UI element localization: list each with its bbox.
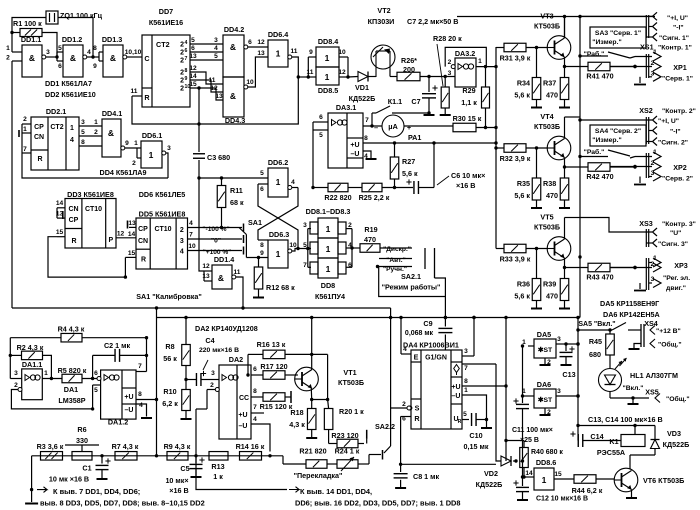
svg-text:R43 470: R43 470 (586, 273, 613, 282)
wire - VT4 collector to rail (565, 116, 581, 118)
resistor R44 (574, 475, 596, 484)
svg-text:2: 2 (180, 42, 184, 49)
svg-text:5: 5 (303, 242, 307, 249)
wire (513, 460, 516, 462)
svg-text:DD1.4: DD1.4 (214, 255, 234, 264)
svg-text:15: 15 (128, 250, 136, 257)
resistor R18 (311, 400, 313, 409)
svg-text:КД522Б: КД522Б (349, 94, 376, 103)
svg-text:1: 1 (325, 53, 330, 63)
svg-text:1: 1 (276, 249, 281, 259)
counter DD7 (142, 35, 190, 107)
svg-text:1: 1 (325, 72, 330, 82)
svg-text:4: 4 (189, 220, 193, 227)
svg-text:15: 15 (189, 81, 197, 88)
svg-text:SA4 "Серв. 2": SA4 "Серв. 2" (595, 128, 641, 135)
svg-text:+U: +U (238, 412, 247, 419)
resistor R13 (209, 452, 228, 461)
svg-text:выв. 8 DD3, DD5, DD7, DD8; выв: выв. 8 DD3, DD5, DD7, DD8; выв. 8–10,15 … (40, 499, 205, 508)
wire - pin2 S (407, 406, 411, 410)
svg-text:CT10: CT10 (154, 226, 171, 233)
svg-text:470: 470 (364, 235, 376, 244)
wire (346, 228, 352, 230)
svg-text:5,6 к: 5,6 к (514, 292, 530, 301)
svg-text:11: 11 (291, 48, 298, 55)
wire - DA2 -U pin4 (251, 424, 270, 452)
svg-text:CT2: CT2 (156, 40, 170, 49)
svg-text:6: 6 (248, 39, 252, 46)
svg-text:К561ПУ4: К561ПУ4 (315, 292, 345, 301)
op-amp DA3.1 (328, 113, 363, 168)
svg-text:R27: R27 (402, 157, 415, 166)
wire (298, 76, 308, 78)
resistor R38 (564, 167, 566, 178)
svg-text:DD6; выв. 16 DD2, DD3, DD5, DD: DD6; выв. 16 DD2, DD3, DD5, DD7; выв. 1 … (295, 499, 461, 508)
svg-text:14: 14 (525, 470, 533, 477)
wire - DA2 CC pin8 (251, 396, 263, 398)
svg-text:1: 1 (134, 140, 138, 147)
svg-text:1: 1 (276, 49, 281, 59)
wire (43, 355, 52, 378)
buffer DD8 stack (318, 218, 338, 238)
svg-text:5,6 к: 5,6 к (514, 191, 530, 200)
svg-text:+U: +U (451, 384, 460, 391)
wire - collector (564, 17, 566, 39)
gate DD1.4 (212, 265, 232, 289)
wire - +12 rail down (577, 318, 579, 441)
svg-text:2: 2 (180, 58, 184, 65)
wire (190, 43, 223, 45)
op-amp DA3.2 (445, 47, 486, 66)
svg-text:5: 5 (260, 170, 264, 177)
svg-text:"Общ.": "Общ." (658, 341, 682, 349)
svg-text:XS1: XS1 (640, 43, 654, 52)
relay K1 (621, 435, 645, 447)
svg-text:DD8.1–DD8.3: DD8.1–DD8.3 (306, 207, 351, 216)
svg-text:ZQ1 100 кГц: ZQ1 100 кГц (60, 11, 103, 20)
svg-text:С6 10 мк×: С6 10 мк× (451, 171, 485, 180)
resistor R34 (532, 78, 541, 100)
svg-text:DD1.2: DD1.2 (62, 35, 82, 44)
resistor R45 (606, 334, 615, 355)
wire (308, 266, 311, 268)
svg-text:DA3.2: DA3.2 (455, 49, 475, 58)
resistor R27 (394, 143, 396, 157)
svg-text:С8 1 мк: С8 1 мк (413, 472, 439, 481)
svg-text:R32 3,9 к: R32 3,9 к (500, 154, 531, 163)
svg-text:"Раб.": "Раб." (584, 148, 605, 156)
svg-text:470: 470 (546, 91, 558, 100)
wire (21, 124, 23, 153)
svg-text:7: 7 (23, 146, 27, 153)
svg-text:DD3 К561ИЕ8: DD3 К561ИЕ8 (67, 190, 114, 199)
svg-text:R14 16 к: R14 16 к (236, 442, 265, 451)
svg-text:КД522Б: КД522Б (663, 440, 690, 449)
svg-text:10: 10 (338, 49, 346, 56)
wire (12, 32, 20, 34)
svg-text:R: R (71, 238, 76, 245)
svg-text:ХР2: ХР2 (673, 163, 687, 172)
svg-text:3: 3 (81, 119, 85, 126)
svg-text:DD6.3: DD6.3 (269, 230, 289, 239)
svg-text:1: 1 (149, 150, 154, 160)
svg-text:&: & (110, 53, 116, 63)
svg-text:3: 3 (651, 71, 655, 78)
wire - supply link vertical (156, 308, 158, 456)
wire - DA5/DA6 input tie (522, 346, 524, 403)
svg-text:XS4: XS4 (644, 319, 658, 328)
svg-text:1: 1 (70, 125, 74, 132)
wire - DA1.2 pin8 (136, 399, 157, 401)
svg-text:1: 1 (94, 119, 98, 126)
svg-text:6: 6 (191, 45, 195, 52)
connector XP3 (645, 258, 647, 290)
svg-text:C3 680: C3 680 (207, 153, 230, 162)
svg-text:5: 5 (319, 132, 323, 139)
svg-text:R: R (414, 414, 420, 423)
svg-text:R4 4,3 к: R4 4,3 к (58, 325, 85, 334)
svg-text:220 мк×16 В: 220 мк×16 В (199, 347, 239, 354)
switch SA1 (243, 224, 245, 232)
svg-text:1: 1 (653, 49, 657, 56)
svg-text:"U": "U" (670, 230, 681, 237)
svg-text:12: 12 (189, 65, 197, 72)
svg-text:2: 2 (210, 382, 214, 389)
svg-text:2: 2 (180, 78, 184, 85)
svg-text:3: 3 (303, 222, 307, 229)
svg-text:R13: R13 (211, 462, 224, 471)
svg-text:12: 12 (117, 231, 125, 238)
svg-text:"Рег. эл.: "Рег. эл. (663, 275, 690, 282)
svg-text:5: 5 (191, 37, 195, 44)
svg-text:DD4.1: DD4.1 (102, 109, 122, 118)
svg-text:56 к: 56 к (163, 354, 177, 363)
svg-text:C7 2,2 мк×50 В: C7 2,2 мк×50 В (407, 17, 458, 26)
svg-text:SA3 "Серв. 1": SA3 "Серв. 1" (595, 30, 641, 37)
svg-text:DA5 КР1158ЕН9Г: DA5 КР1158ЕН9Г (600, 299, 659, 308)
wire - base divider (536, 148, 538, 178)
svg-text:&: & (29, 53, 35, 63)
svg-text:R: R (458, 419, 462, 425)
wire - pin7 (462, 363, 496, 365)
svg-text:×16 В: ×16 В (169, 486, 188, 495)
counter DD2.1 (31, 117, 79, 170)
svg-text:CP: CP (34, 124, 44, 131)
svg-text:–U: –U (351, 151, 360, 158)
svg-text:VT6 КТ503Б: VT6 КТ503Б (643, 476, 684, 485)
svg-text:VT1: VT1 (343, 368, 356, 377)
svg-text:"+I, U": "+I, U" (667, 15, 688, 22)
svg-text:SA1: SA1 (248, 218, 262, 227)
svg-text:11: 11 (307, 69, 314, 76)
svg-text:КТ503Б: КТ503Б (534, 122, 560, 131)
svg-text:15: 15 (56, 229, 64, 236)
svg-text:6: 6 (94, 370, 98, 377)
svg-text:4: 4 (403, 346, 407, 353)
svg-text:+: + (407, 123, 412, 132)
wire - pin2 bias rail (11, 390, 92, 409)
counter DD5 (136, 218, 188, 269)
svg-text:"-100 %": "-100 %" (202, 226, 229, 233)
svg-text:C: C (144, 54, 149, 63)
gate DD1.1 (22, 45, 42, 77)
svg-text:1: 1 (653, 149, 657, 156)
svg-text:200: 200 (403, 65, 415, 74)
svg-text:"Авт.": "Авт." (386, 257, 405, 264)
capacitor C5 (195, 456, 197, 463)
svg-text:5: 5 (81, 129, 85, 136)
gate DD4.2 (223, 35, 244, 77)
transistor VT4 (547, 136, 571, 160)
svg-text:R42 470: R42 470 (586, 172, 613, 181)
svg-text:R16 13 к: R16 13 к (257, 340, 286, 349)
wire (206, 390, 208, 410)
svg-text:C9: C9 (423, 319, 432, 328)
connector XP1 (645, 54, 647, 78)
wire (368, 76, 376, 78)
svg-text:C13, C14 100 мк×16 В: C13, C14 100 мк×16 В (588, 415, 663, 424)
svg-text:SA2.1: SA2.1 (401, 272, 421, 281)
svg-text:680: 680 (589, 350, 601, 359)
svg-text:DD6.4: DD6.4 (268, 30, 288, 39)
svg-text:+U: +U (350, 142, 359, 149)
svg-text:"Контр. 2": "Контр. 2" (662, 108, 696, 115)
svg-text:3: 3 (214, 37, 218, 44)
svg-text:4: 4 (185, 40, 188, 46)
svg-text:×16 В: ×16 В (456, 181, 475, 190)
svg-text:"Измер.": "Измер." (592, 137, 621, 144)
svg-text:"Сигн. 2": "Сигн. 2" (658, 140, 688, 147)
resistor R31 (496, 47, 504, 49)
svg-text:R39: R39 (543, 280, 556, 289)
svg-text:4: 4 (180, 249, 184, 256)
svg-text:1: 1 (276, 177, 281, 187)
svg-text:2: 2 (180, 227, 184, 234)
svg-text:470: 470 (546, 292, 558, 301)
wire (196, 451, 287, 490)
wire - emitter (564, 158, 566, 168)
wire - VT1 collector (311, 318, 313, 370)
resistor R37 (564, 67, 566, 78)
svg-text:R30 15 к: R30 15 к (453, 114, 482, 123)
wire (79, 125, 102, 127)
svg-text:4,3 к: 4,3 к (289, 420, 305, 429)
wire - DD3 P out (116, 237, 136, 239)
svg-text:R20 1 к: R20 1 к (339, 407, 364, 416)
svg-text:R25 2,2 к: R25 2,2 к (359, 193, 390, 202)
svg-text:R23 120: R23 120 (331, 431, 358, 440)
gate DD6.2 (268, 168, 288, 197)
gate DD6.1 (141, 141, 162, 168)
resistor R33 (496, 248, 504, 250)
svg-text:6: 6 (58, 63, 62, 70)
svg-text:R12 68 к: R12 68 к (266, 283, 295, 292)
svg-text:7: 7 (138, 363, 142, 370)
switch SA3 (590, 27, 646, 48)
capacitor C8 (400, 464, 402, 472)
wire - VT1 emitter node (310, 389, 312, 400)
capacitor C11 (516, 403, 529, 405)
svg-text:2: 2 (651, 261, 655, 268)
svg-text:3: 3 (46, 49, 50, 56)
wire (308, 228, 311, 230)
svg-text:2: 2 (651, 160, 655, 167)
svg-text:R22 820: R22 820 (324, 193, 351, 202)
svg-text:DA6 КР142ЕН5А: DA6 КР142ЕН5А (603, 310, 660, 319)
svg-text:"Серв. 1": "Серв. 1" (662, 76, 693, 83)
resistor R10 (182, 390, 191, 411)
svg-text:"+I, U": "+I, U" (658, 118, 679, 125)
svg-text:R1 100 к: R1 100 к (13, 19, 42, 28)
svg-text:DD8.6: DD8.6 (536, 458, 556, 467)
svg-text:R29: R29 (462, 86, 475, 95)
svg-text:13: 13 (215, 93, 223, 100)
svg-text:C5: C5 (180, 464, 189, 473)
svg-text:"-I": "-I" (673, 25, 684, 32)
svg-text:8: 8 (260, 242, 264, 249)
gate DD1.2 (63, 45, 83, 77)
svg-text:C1: C1 (82, 464, 91, 473)
svg-text:G1/GN: G1/GN (425, 355, 447, 362)
svg-text:4: 4 (214, 45, 218, 52)
svg-text:2: 2 (448, 59, 452, 66)
svg-text:8: 8 (93, 45, 97, 52)
svg-text:DD4 К561ЛА9: DD4 К561ЛА9 (100, 168, 147, 177)
svg-text:10 мк ×16 В: 10 мк ×16 В (49, 475, 89, 484)
relay contact K1.1 (371, 113, 373, 126)
svg-text:HL1 АЛ307ГМ: HL1 АЛ307ГМ (630, 371, 678, 380)
gate DD6.3 (268, 240, 288, 268)
wire (11, 61, 13, 308)
svg-text:R10: R10 (163, 387, 176, 396)
svg-text:CN: CN (138, 238, 148, 245)
svg-text:SA2.2: SA2.2 (375, 422, 395, 431)
svg-text:1 к: 1 к (213, 472, 223, 481)
svg-text:µА: µА (388, 122, 398, 131)
wire (346, 266, 352, 268)
svg-text:3: 3 (557, 388, 561, 395)
svg-text:6,2 к: 6,2 к (162, 399, 178, 408)
wire - DA2 out (251, 374, 263, 376)
wire - base divider (536, 249, 538, 279)
wire (190, 80, 223, 92)
meter PA1 (382, 115, 404, 137)
svg-text:R31 3,9 к: R31 3,9 к (500, 54, 531, 63)
svg-text:VD2: VD2 (484, 469, 498, 478)
svg-text:3: 3 (211, 370, 215, 377)
wire - SA3 pole (580, 55, 608, 57)
resistor R11 (220, 176, 223, 179)
svg-text:DD1.3: DD1.3 (102, 35, 122, 44)
wire - emitter (564, 258, 566, 268)
svg-text:CN: CN (68, 206, 78, 213)
svg-text:"Измер.": "Измер." (592, 39, 621, 46)
svg-text:1: 1 (326, 264, 331, 274)
switch SA5 (576, 316, 579, 319)
svg-text:R41 470: R41 470 (586, 72, 613, 81)
svg-text:&: & (230, 91, 236, 101)
svg-text:3: 3 (180, 238, 184, 245)
wire - bottom bus (32, 455, 283, 457)
svg-text:10,10: 10,10 (125, 49, 142, 56)
wire - VT6 emitter (631, 490, 633, 498)
svg-text:✱ST: ✱ST (538, 396, 553, 404)
resistor R8 (182, 345, 191, 366)
svg-text:К561ИЕ16: К561ИЕ16 (149, 18, 183, 27)
svg-text:R45: R45 (589, 337, 602, 346)
wire (408, 406, 412, 410)
svg-text:1: 1 (326, 224, 331, 234)
wire (56, 208, 58, 218)
svg-text:"Сигн. 1": "Сигн. 1" (659, 35, 689, 42)
svg-text:8: 8 (464, 378, 468, 385)
svg-text:7: 7 (185, 56, 188, 62)
svg-text:9: 9 (309, 49, 313, 56)
wire (378, 267, 446, 318)
svg-text:С7: С7 (411, 97, 420, 106)
svg-text:КТ503Б: КТ503Б (534, 223, 560, 232)
wire - left drop to common (31, 456, 33, 490)
svg-text:DA2: DA2 (229, 355, 243, 364)
svg-text:DD8.4: DD8.4 (318, 37, 338, 46)
svg-text:R38: R38 (543, 179, 556, 188)
svg-text:3: 3 (557, 336, 561, 343)
svg-text:CT10: CT10 (85, 206, 102, 213)
diode VD1 (348, 76, 358, 79)
svg-text:DD1.1: DD1.1 (21, 35, 41, 44)
svg-text:11: 11 (234, 269, 241, 276)
svg-text:"Вкл.": "Вкл." (622, 385, 643, 392)
wire - DA1.2 pin7 (136, 371, 147, 373)
svg-text:&: & (108, 128, 114, 138)
svg-text:C11 100 мк×: C11 100 мк× (512, 427, 553, 434)
svg-text:R34: R34 (517, 79, 530, 88)
wire - analog top rail (156, 317, 580, 319)
svg-text:C4: C4 (205, 336, 214, 345)
svg-text:3: 3 (167, 145, 171, 152)
svg-text:R28 20 к: R28 20 к (433, 34, 462, 43)
wire - emitter (564, 57, 566, 67)
svg-text:R7 4,3 к: R7 4,3 к (112, 442, 139, 451)
svg-text:1,1 к: 1,1 к (461, 98, 477, 107)
wire - SA4 pole (580, 156, 608, 158)
resistor R19 (346, 247, 360, 249)
svg-text:DD8: DD8 (321, 281, 335, 290)
resistor R40 (506, 440, 524, 442)
svg-text:5: 5 (58, 45, 62, 52)
resistor R22 (313, 187, 328, 189)
wire (190, 72, 223, 84)
svg-text:11: 11 (131, 88, 138, 95)
svg-text:2: 2 (402, 401, 406, 408)
svg-text:2: 2 (651, 60, 655, 67)
wire (190, 51, 223, 53)
svg-text:0,068 мк: 0,068 мк (405, 330, 434, 337)
wire - pin8 +U (462, 385, 506, 387)
svg-text:КТ503Б: КТ503Б (338, 378, 364, 387)
svg-text:1: 1 (542, 475, 547, 485)
svg-text:C13: C13 (562, 370, 575, 379)
svg-text:13: 13 (189, 53, 197, 60)
svg-text:DA5: DA5 (537, 330, 551, 339)
svg-text:ХР3: ХР3 (674, 261, 688, 270)
svg-text:R33 3,9 к: R33 3,9 к (500, 255, 531, 264)
wire - mode contacts (380, 247, 412, 249)
connector XS1 (645, 15, 647, 38)
svg-text:–U: –U (125, 407, 134, 414)
wire - pin6 R (401, 416, 411, 418)
regulator DA6 (534, 389, 556, 408)
